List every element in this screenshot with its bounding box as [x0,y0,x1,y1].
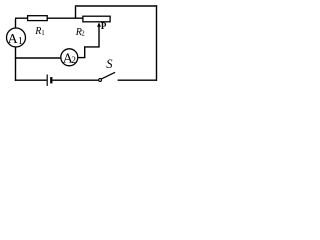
switch S [99,79,102,82]
wire right vertical [156,5,158,81]
svg-text:1: 1 [18,36,23,47]
rheostat R2 [83,16,110,22]
wire R1 right to R2 left [47,17,83,19]
label A1 [8,32,23,47]
resistor R1 [28,16,48,21]
wire A1 top to R1 left [15,18,27,28]
label R1 [34,26,45,37]
wire top horizontal [75,5,157,7]
wire left vertical [15,47,17,81]
wire A2 right segment [78,57,86,59]
svg-text:S: S [106,57,113,71]
wiper arrow P [97,22,101,26]
svg-text:P: P [101,21,107,31]
wire junction up to top [75,7,77,19]
wire A2 left segment [15,57,61,59]
wire bottom left to battery [15,79,47,81]
wire switch to right corner [118,79,157,81]
svg-text:2: 2 [71,56,76,66]
label A2 [63,52,77,67]
wire wiper down and left to A2 branch [85,27,99,59]
wire battery to switch [53,79,99,81]
svg-text:1: 1 [41,29,45,37]
ammeter A1 [7,28,26,47]
ammeter A2 [61,49,78,66]
label R2 [75,27,85,38]
battery cell [46,75,48,87]
svg-text:2: 2 [81,30,85,38]
